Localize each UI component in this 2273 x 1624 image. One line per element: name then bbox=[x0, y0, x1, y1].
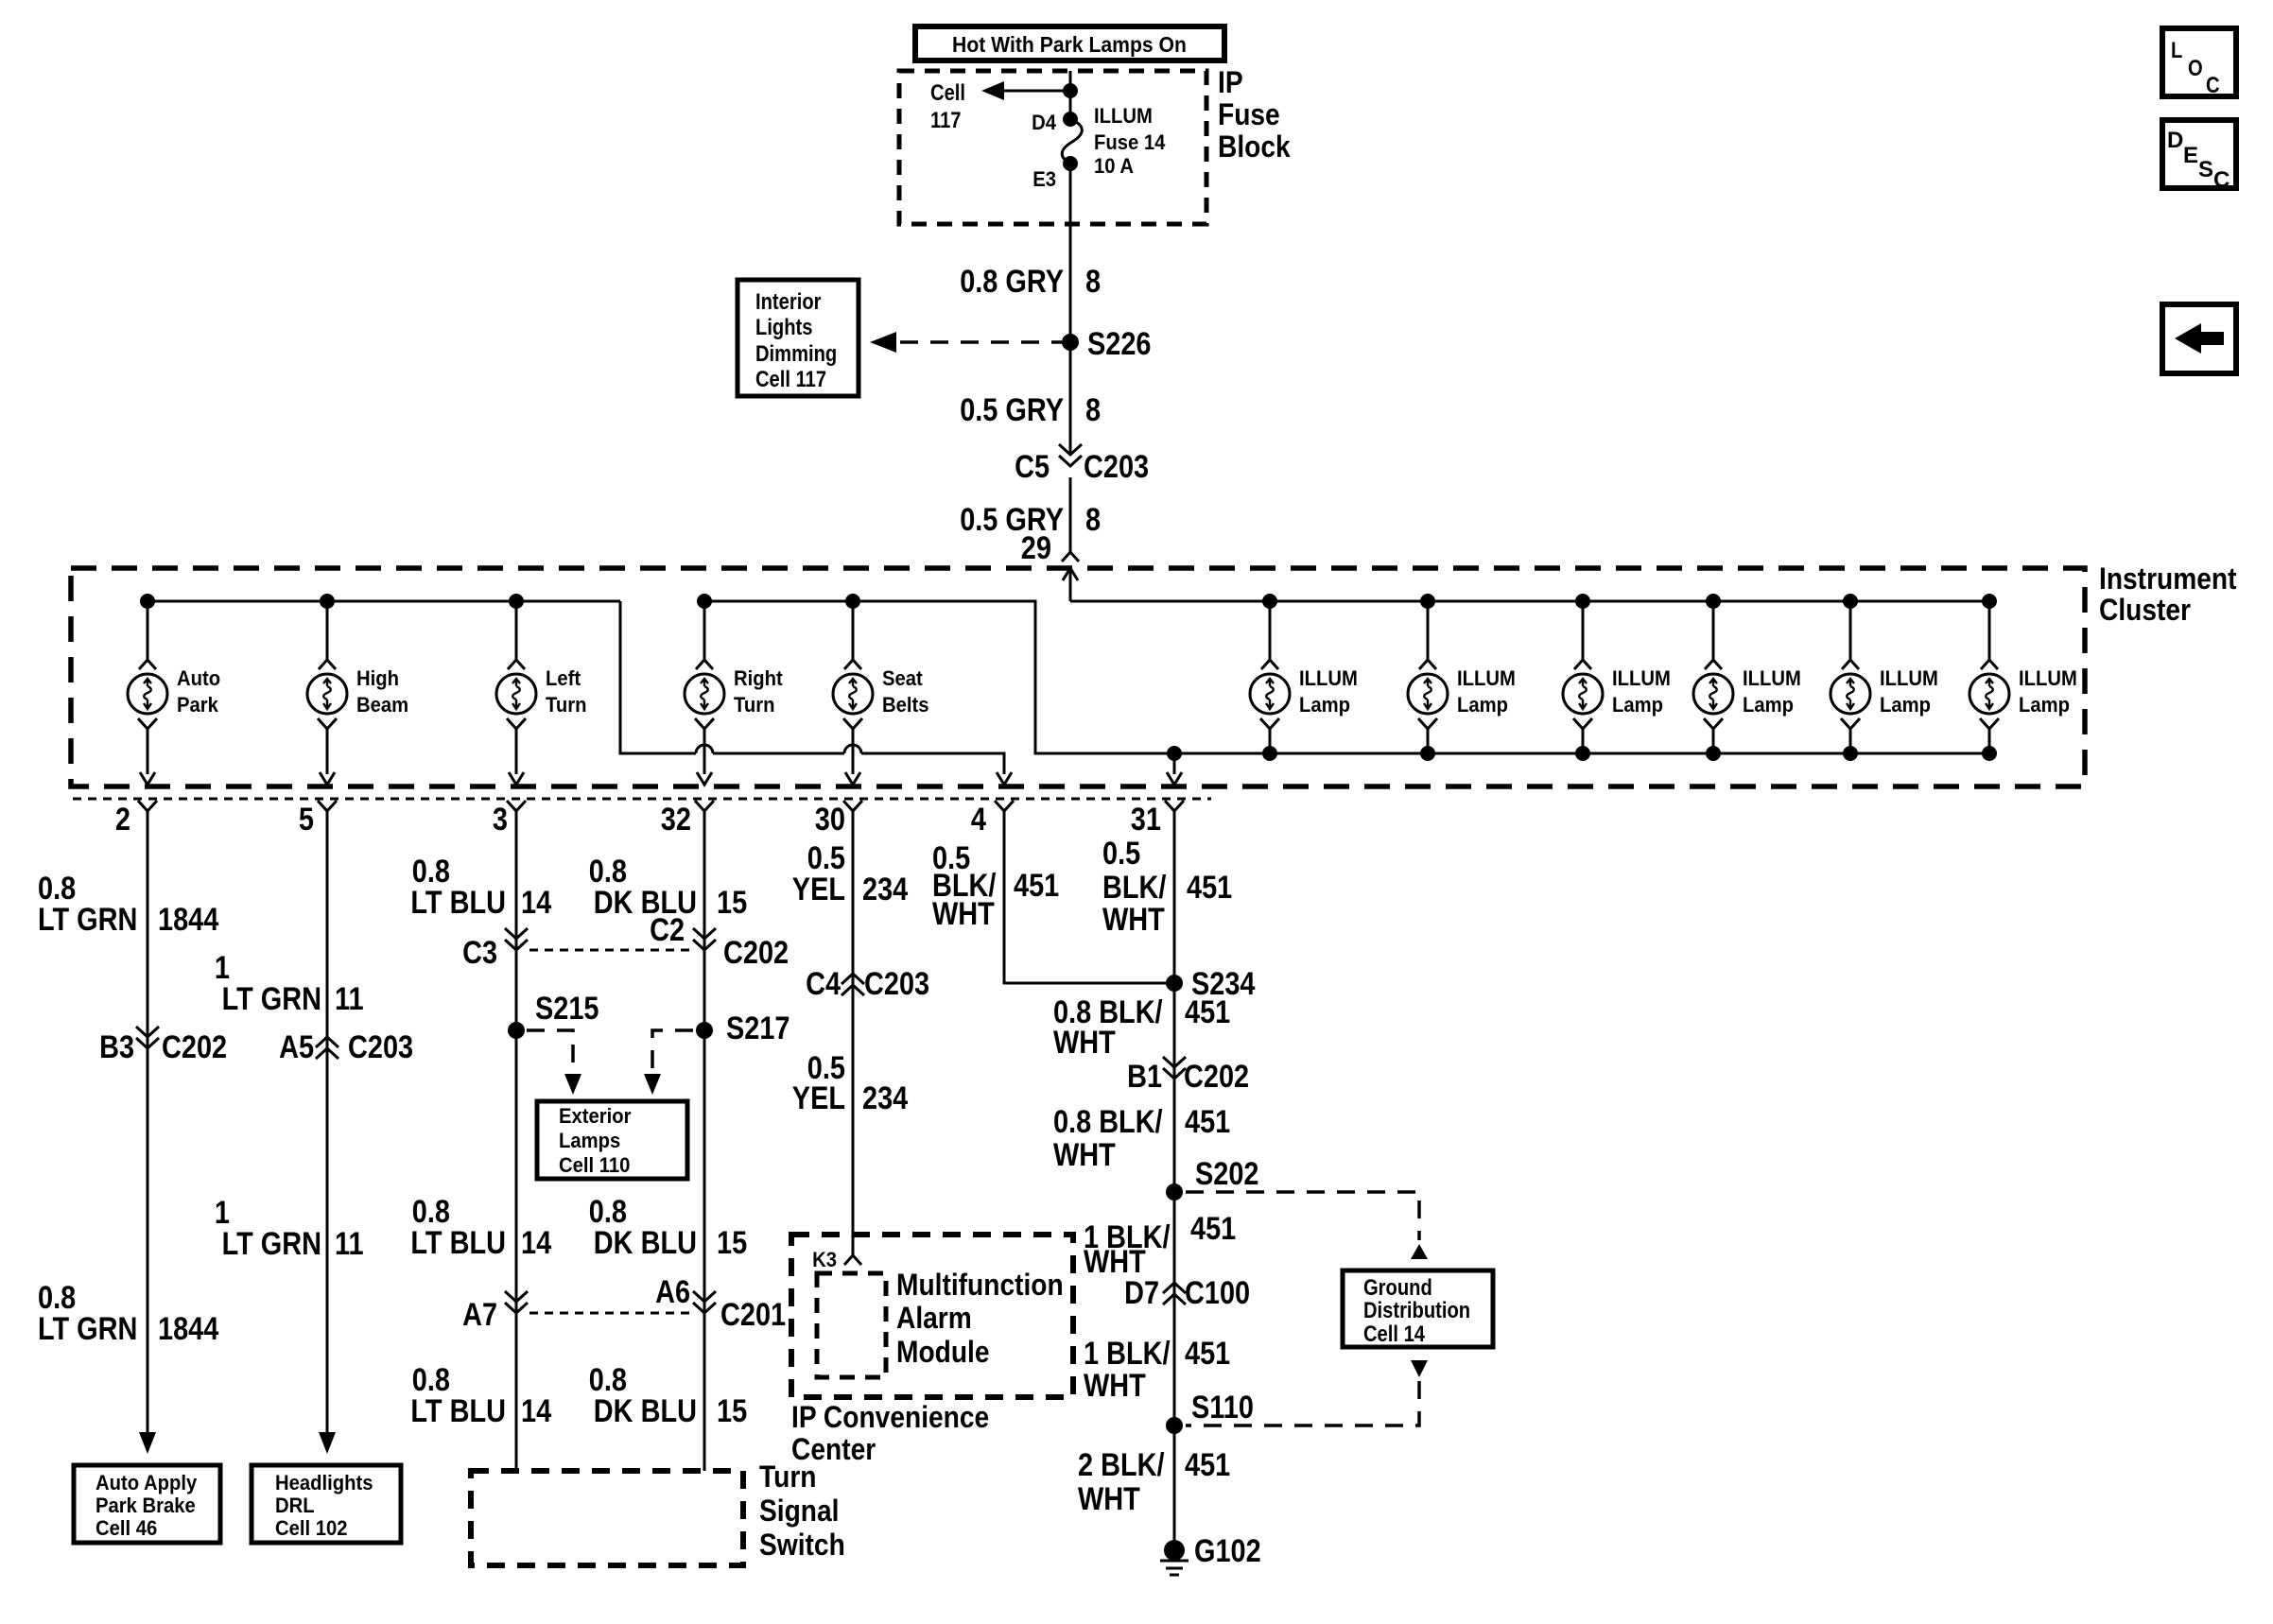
svg-text:11: 11 bbox=[335, 1226, 364, 1262]
svg-text:451: 451 bbox=[1185, 1447, 1230, 1483]
svg-text:Dimming: Dimming bbox=[755, 341, 837, 367]
svg-text:Lamp: Lamp bbox=[1457, 693, 1508, 717]
svg-text:ILLUM: ILLUM bbox=[1094, 104, 1153, 128]
lamp High Beam bbox=[307, 601, 408, 785]
svg-text:31: 31 bbox=[1131, 802, 1161, 838]
svg-text:Cluster: Cluster bbox=[2099, 593, 2191, 627]
connector B1 C202 bbox=[1127, 1057, 1249, 1095]
svg-text:Ground: Ground bbox=[1363, 1275, 1432, 1301]
svg-text:Turn: Turn bbox=[734, 693, 775, 717]
svg-text:234: 234 bbox=[862, 872, 908, 907]
label 0.5 BLK/WHT 451 (wire 31) bbox=[1102, 836, 1232, 938]
box: Auto Apply Park Brake Cell 46 bbox=[74, 1465, 220, 1543]
svg-text:A6: A6 bbox=[655, 1274, 690, 1310]
connector B3 C202 bbox=[99, 1027, 227, 1065]
svg-text:E: E bbox=[2183, 143, 2198, 168]
svg-text:S226: S226 bbox=[1087, 326, 1152, 362]
wire: dashed arrow from S226 to Interior Lights box bbox=[870, 332, 1063, 353]
svg-text:LT GRN: LT GRN bbox=[38, 902, 137, 938]
connector A7 bbox=[462, 1291, 528, 1333]
svg-text:C203: C203 bbox=[1084, 449, 1149, 485]
svg-text:Hot With Park Lamps On: Hot With Park Lamps On bbox=[952, 32, 1187, 57]
wire hop over Seat Belts wire bbox=[844, 745, 861, 753]
svg-text:2: 2 bbox=[115, 802, 130, 838]
svg-text:WHT: WHT bbox=[1102, 902, 1165, 938]
svg-text:Beam: Beam bbox=[356, 693, 408, 717]
svg-text:C: C bbox=[2213, 167, 2230, 193]
lamp Right Turn bbox=[685, 601, 783, 785]
svg-text:Lamp: Lamp bbox=[1612, 693, 1663, 717]
svg-text:Signal: Signal bbox=[759, 1494, 840, 1528]
svg-text:A5: A5 bbox=[279, 1029, 314, 1065]
svg-text:Center: Center bbox=[791, 1432, 876, 1466]
lamp Left Turn bbox=[496, 601, 587, 785]
svg-text:B1: B1 bbox=[1127, 1059, 1162, 1095]
label 1 BLK/WHT 451 (D7 to S110) bbox=[1084, 1336, 1230, 1404]
svg-text:Turn: Turn bbox=[546, 693, 587, 717]
svg-text:0.5 GRY: 0.5 GRY bbox=[960, 392, 1064, 428]
svg-text:Lamps: Lamps bbox=[559, 1129, 620, 1152]
svg-text:G102: G102 bbox=[1194, 1533, 1261, 1569]
svg-text:Alarm: Alarm bbox=[896, 1301, 972, 1335]
svg-text:WHT: WHT bbox=[1084, 1368, 1146, 1404]
svg-text:Park Brake: Park Brake bbox=[95, 1494, 196, 1517]
svg-text:D7: D7 bbox=[1124, 1275, 1159, 1311]
wire: left top bus bbox=[147, 600, 620, 603]
lamp ILLUM 4 bbox=[1693, 594, 1801, 761]
label 0.8 DK BLU 15 (second) bbox=[589, 1194, 747, 1261]
svg-text:D: D bbox=[2167, 128, 2183, 153]
svg-text:C202: C202 bbox=[723, 935, 789, 971]
label 2 BLK/WHT 451 (S110 to G102) bbox=[1078, 1447, 1230, 1517]
wire: dashed reference S202 to Ground Distribution bbox=[1186, 1192, 1419, 1240]
svg-text:High: High bbox=[356, 666, 399, 690]
lamp Auto Park bbox=[128, 601, 220, 785]
label 0.5 BLK/WHT 451 (wire 4) bbox=[932, 840, 1059, 932]
node: junction on Cell 117 arrow bbox=[1063, 83, 1078, 98]
connector C2 C202 bbox=[650, 912, 789, 971]
svg-text:0.8 BLK/: 0.8 BLK/ bbox=[1053, 1104, 1163, 1140]
splice S110 bbox=[1166, 1390, 1254, 1434]
svg-text:Lamp: Lamp bbox=[1299, 693, 1350, 717]
wire 32: pin 32 down to Turn Signal Switch bbox=[703, 811, 706, 1471]
svg-text:ILLUM: ILLUM bbox=[1743, 666, 1801, 690]
wire: dashed connector line A7 to A6 bbox=[529, 1312, 691, 1315]
svg-text:Auto: Auto bbox=[177, 666, 220, 690]
svg-text:BLK/: BLK/ bbox=[1102, 870, 1167, 906]
svg-text:Right: Right bbox=[734, 666, 783, 690]
lamp ILLUM 2 bbox=[1408, 594, 1516, 761]
svg-text:Instrument: Instrument bbox=[2099, 561, 2237, 596]
svg-text:ILLUM: ILLUM bbox=[1880, 666, 1938, 690]
label 0.8 BLK/WHT 451 (S234 to B1) bbox=[1053, 994, 1230, 1061]
svg-text:B3: B3 bbox=[99, 1029, 134, 1065]
svg-text:DK BLU: DK BLU bbox=[594, 1225, 697, 1261]
box: Interior Lights Dimming Cell 117 bbox=[737, 280, 859, 396]
svg-text:Cell 102: Cell 102 bbox=[275, 1516, 348, 1540]
label 0.8 LT BLU 14 (second) bbox=[410, 1194, 551, 1261]
left arrow box bbox=[2162, 304, 2236, 373]
svg-text:C202: C202 bbox=[1184, 1059, 1249, 1095]
svg-text:Lamp: Lamp bbox=[2019, 693, 2070, 717]
svg-text:14: 14 bbox=[521, 1225, 551, 1261]
svg-text:Cell 117: Cell 117 bbox=[755, 367, 826, 392]
svg-text:Cell 14: Cell 14 bbox=[1363, 1322, 1426, 1347]
svg-text:451: 451 bbox=[1185, 1104, 1230, 1140]
label 1 LT GRN 11 (lower) bbox=[215, 1195, 364, 1262]
svg-text:ILLUM: ILLUM bbox=[1457, 666, 1516, 690]
label 0.8 BLK/WHT 451 (B1 to S202) bbox=[1053, 1104, 1230, 1173]
IP Fuse Block dashed box bbox=[899, 65, 1291, 224]
splice S234 bbox=[1166, 966, 1256, 1002]
svg-text:K3: K3 bbox=[812, 1248, 837, 1271]
svg-text:YEL: YEL bbox=[792, 872, 845, 907]
lamp Seat Belts bbox=[833, 601, 929, 785]
wire: S226 down to C5 bbox=[1069, 342, 1072, 453]
lamp ILLUM 1 bbox=[1250, 594, 1358, 761]
svg-text:5: 5 bbox=[299, 802, 314, 838]
svg-text:S110: S110 bbox=[1191, 1390, 1254, 1425]
wire 31: pin 31 down to G102 bbox=[1173, 811, 1176, 1550]
pin 30 of instrument cluster bbox=[815, 801, 862, 838]
svg-text:Exterior: Exterior bbox=[559, 1104, 632, 1128]
connector C5 C203 bbox=[1015, 444, 1149, 485]
box: IP Convenience Center (dashed) with Multifunction Alarm Module bbox=[791, 1235, 1073, 1466]
box: Ground Distribution Cell 14 bbox=[1343, 1270, 1493, 1347]
svg-text:LT BLU: LT BLU bbox=[410, 885, 506, 921]
svg-text:L: L bbox=[2171, 38, 2182, 63]
wire: feed into fuse block bbox=[1069, 71, 1072, 119]
svg-text:15: 15 bbox=[717, 885, 747, 921]
header box "Hot With Park Lamps On" bbox=[915, 26, 1224, 60]
label 0.5 YEL 234 (lower) bbox=[792, 1050, 908, 1116]
svg-text:S202: S202 bbox=[1195, 1156, 1259, 1192]
wire 4: pin 4 down and over to S234 bbox=[1004, 811, 1174, 983]
svg-text:2 BLK/: 2 BLK/ bbox=[1078, 1447, 1165, 1483]
wire 3: pin 3 down to Turn Signal Switch bbox=[515, 811, 518, 1471]
svg-text:Cell: Cell bbox=[930, 80, 965, 106]
svg-text:0.8 GRY: 0.8 GRY bbox=[960, 264, 1064, 300]
pin 32 of instrument cluster bbox=[661, 801, 714, 838]
label 0.8 LT GRN 1844 (lower) bbox=[38, 1280, 218, 1347]
ground G102 bbox=[1160, 1533, 1261, 1575]
pin 5 of instrument cluster bbox=[299, 801, 337, 838]
svg-text:117: 117 bbox=[930, 108, 962, 133]
box: Turn Signal Switch (dashed) bbox=[471, 1460, 845, 1565]
svg-text:32: 32 bbox=[661, 802, 691, 838]
svg-text:WHT: WHT bbox=[1078, 1481, 1140, 1517]
cluster pin connector fine dashed line bbox=[73, 798, 1211, 801]
svg-text:451: 451 bbox=[1185, 1336, 1230, 1372]
wire: dashed connector line C3 to C2 bbox=[529, 949, 691, 952]
node: pin 31 branch bbox=[1167, 746, 1182, 761]
lamp ILLUM 5 bbox=[1831, 594, 1938, 761]
svg-text:Fuse: Fuse bbox=[1218, 97, 1280, 131]
svg-text:Block: Block bbox=[1218, 130, 1291, 164]
svg-text:451: 451 bbox=[1185, 994, 1230, 1030]
svg-text:Module: Module bbox=[896, 1335, 990, 1369]
connector D7 C100 bbox=[1124, 1275, 1250, 1311]
svg-text:Auto Apply: Auto Apply bbox=[95, 1471, 198, 1494]
svg-text:4: 4 bbox=[971, 802, 986, 838]
svg-text:C: C bbox=[2206, 73, 2220, 98]
wire 30: pin 30 down to Multifunction Alarm Module K3 bbox=[852, 811, 855, 1255]
svg-text:ILLUM: ILLUM bbox=[1299, 666, 1358, 690]
wire 2: pin 2 down to Auto Apply Park Brake bbox=[139, 811, 156, 1454]
svg-text:10 A: 10 A bbox=[1094, 154, 1134, 178]
svg-text:Park: Park bbox=[177, 693, 219, 717]
svg-text:Left: Left bbox=[546, 666, 581, 690]
svg-text:A7: A7 bbox=[462, 1297, 497, 1333]
lamp ILLUM 6 bbox=[1969, 594, 2077, 761]
svg-text:C4: C4 bbox=[806, 966, 841, 1002]
svg-text:E3: E3 bbox=[1032, 167, 1056, 191]
svg-text:C202: C202 bbox=[162, 1029, 227, 1065]
box: Exterior Lamps Cell 110 bbox=[537, 1101, 687, 1179]
svg-text:Cell 46: Cell 46 bbox=[95, 1516, 157, 1540]
svg-text:IP Convenience: IP Convenience bbox=[791, 1400, 989, 1434]
svg-text:C203: C203 bbox=[864, 966, 929, 1002]
svg-text:3: 3 bbox=[493, 802, 508, 838]
splice S202 bbox=[1166, 1156, 1259, 1201]
svg-text:Belts: Belts bbox=[882, 693, 929, 717]
svg-text:8: 8 bbox=[1085, 264, 1101, 300]
label 0.5 GRY 8 bbox=[960, 392, 1101, 428]
label 1 LT GRN 11 (upper) bbox=[215, 950, 364, 1017]
svg-text:Distribution: Distribution bbox=[1363, 1298, 1470, 1323]
DESC box bbox=[2162, 120, 2236, 193]
svg-text:D4: D4 bbox=[1032, 111, 1057, 134]
svg-text:Headlights: Headlights bbox=[275, 1471, 373, 1494]
wire: pin 29 into ILLUM top bus bbox=[1069, 568, 1072, 601]
box: Headlights DRL Cell 102 bbox=[252, 1465, 401, 1543]
svg-text:1844: 1844 bbox=[158, 902, 218, 938]
wire: arrow to Cell 117 bbox=[930, 80, 1070, 133]
svg-text:C201: C201 bbox=[720, 1297, 786, 1333]
svg-text:234: 234 bbox=[862, 1080, 908, 1116]
Instrument Cluster dashed box bbox=[71, 561, 2237, 786]
label 1 BLK/WHT 451 (S202 to D7) bbox=[1084, 1211, 1236, 1280]
svg-text:LT GRN: LT GRN bbox=[222, 981, 321, 1017]
label 0.8 LT BLU 14 (third) bbox=[410, 1362, 551, 1429]
svg-text:29: 29 bbox=[1021, 530, 1051, 566]
svg-text:0.5: 0.5 bbox=[1102, 836, 1140, 872]
wire: C5 down to pin 29 bbox=[1069, 477, 1072, 552]
svg-text:30: 30 bbox=[815, 802, 845, 838]
svg-text:ILLUM: ILLUM bbox=[2019, 666, 2077, 690]
svg-text:IP: IP bbox=[1218, 65, 1243, 99]
svg-text:C3: C3 bbox=[462, 935, 497, 971]
pin 29 of instrument cluster bbox=[1021, 530, 1079, 580]
LOC box bbox=[2162, 28, 2236, 98]
svg-text:1 BLK/: 1 BLK/ bbox=[1084, 1336, 1171, 1372]
node: bus junctions left bbox=[140, 594, 155, 609]
wire 5: pin 5 down to Headlights DRL bbox=[319, 811, 336, 1454]
svg-text:8: 8 bbox=[1085, 502, 1101, 538]
svg-text:Switch: Switch bbox=[759, 1528, 845, 1562]
fuse F14 (ILLUM Fuse 14 10 A) bbox=[1032, 104, 1166, 191]
wire: ILLUM top bus bbox=[1070, 600, 1989, 603]
svg-text:DK BLU: DK BLU bbox=[594, 1393, 697, 1429]
label 0.8 LT BLU 14 (first) bbox=[410, 854, 551, 921]
label 0.8 DK BLU 15 (third) bbox=[589, 1362, 747, 1429]
connector C4 C203 bbox=[806, 966, 929, 1002]
pin 31 of instrument cluster bbox=[1131, 801, 1184, 838]
svg-text:Lamp: Lamp bbox=[1743, 693, 1794, 717]
label 0.5 YEL 234 (upper) bbox=[792, 840, 908, 907]
svg-text:C2: C2 bbox=[650, 912, 685, 948]
wire: right top bus (Right Turn / Seat Belts) bbox=[704, 601, 1989, 753]
splice S217 bbox=[644, 1011, 790, 1095]
svg-text:14: 14 bbox=[521, 1393, 551, 1429]
svg-text:WHT: WHT bbox=[1053, 1137, 1116, 1173]
label 0.8 LT GRN 1844 (upper) bbox=[38, 871, 218, 938]
label 0.8 DK BLU 15 (first) bbox=[589, 854, 747, 921]
svg-text:S: S bbox=[2198, 157, 2213, 182]
svg-text:C100: C100 bbox=[1185, 1275, 1250, 1311]
pin K3 of multifunction alarm module bbox=[812, 1248, 861, 1271]
splice S226 bbox=[1062, 326, 1152, 362]
wire: fuse E3 down to S226 bbox=[1069, 164, 1072, 342]
svg-text:Cell 110: Cell 110 bbox=[559, 1153, 630, 1177]
svg-text:C5: C5 bbox=[1015, 449, 1050, 485]
connector A5 C203 bbox=[279, 1029, 413, 1065]
pin 3 of instrument cluster bbox=[493, 801, 526, 838]
splice S215 bbox=[508, 991, 599, 1095]
svg-text:451: 451 bbox=[1190, 1211, 1236, 1247]
connector A6 C201 bbox=[655, 1274, 786, 1333]
label 0.5 GRY 8 bbox=[960, 502, 1101, 538]
wire: left bus corner down and lower bus with hops to pin 4 bbox=[620, 601, 1012, 785]
svg-text:Seat: Seat bbox=[882, 666, 923, 690]
svg-text:Lamp: Lamp bbox=[1880, 693, 1931, 717]
svg-text:11: 11 bbox=[335, 981, 364, 1017]
svg-text:LT BLU: LT BLU bbox=[410, 1225, 506, 1261]
svg-text:DRL: DRL bbox=[275, 1494, 315, 1517]
svg-text:Lights: Lights bbox=[755, 315, 813, 340]
svg-text:8: 8 bbox=[1085, 392, 1101, 428]
pin 4 of instrument cluster bbox=[971, 801, 1014, 838]
svg-text:WHT: WHT bbox=[932, 896, 995, 932]
lamp ILLUM 3 bbox=[1563, 594, 1671, 761]
svg-text:O: O bbox=[2188, 56, 2203, 81]
svg-text:LT GRN: LT GRN bbox=[222, 1226, 321, 1262]
svg-text:ILLUM: ILLUM bbox=[1612, 666, 1671, 690]
svg-text:451: 451 bbox=[1014, 868, 1059, 904]
svg-text:YEL: YEL bbox=[792, 1080, 845, 1116]
svg-text:14: 14 bbox=[521, 885, 551, 921]
label 0.8 GRY 8 bbox=[960, 264, 1101, 300]
connector C3 bbox=[462, 928, 528, 971]
svg-text:S215: S215 bbox=[535, 991, 599, 1027]
svg-text:LT BLU: LT BLU bbox=[410, 1393, 506, 1429]
svg-text:Fuse 14: Fuse 14 bbox=[1094, 130, 1166, 154]
svg-text:15: 15 bbox=[717, 1393, 747, 1429]
svg-text:S217: S217 bbox=[726, 1011, 790, 1046]
svg-text:1844: 1844 bbox=[158, 1311, 218, 1347]
svg-text:WHT: WHT bbox=[1053, 1025, 1116, 1061]
svg-text:15: 15 bbox=[717, 1225, 747, 1261]
pin 2 of instrument cluster bbox=[115, 801, 157, 838]
svg-text:Multifunction: Multifunction bbox=[896, 1268, 1064, 1302]
wire: dashed reference Ground Distribution to S110 bbox=[1411, 1360, 1428, 1377]
wire hop over Right Turn wire bbox=[696, 745, 713, 753]
svg-text:C203: C203 bbox=[348, 1029, 413, 1065]
svg-text:Interior: Interior bbox=[755, 289, 822, 315]
svg-text:LT GRN: LT GRN bbox=[38, 1311, 137, 1347]
svg-text:451: 451 bbox=[1187, 870, 1232, 906]
